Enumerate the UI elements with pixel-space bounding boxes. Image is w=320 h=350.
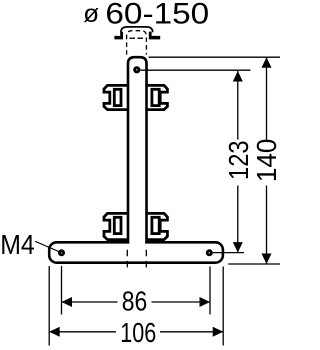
extension line below right hole (86) bbox=[209, 267, 211, 315]
leader line from top hole to 123 dimension bbox=[140, 69, 250, 71]
leader line from right hole to 123 dimension bbox=[213, 252, 244, 254]
extension line from base bar bottom to 140 dimension bbox=[228, 263, 280, 265]
base bar (horizontal foot, rounded rect) bbox=[49, 242, 223, 262]
arrow left 106 bbox=[49, 327, 60, 337]
dashed clamp jaw profile (hidden rounded top) bbox=[127, 31, 147, 55]
svg-text:60-150: 60-150 bbox=[105, 0, 209, 31]
clamp symbol left hook arrow bbox=[114, 32, 123, 40]
arrow down 123 bbox=[233, 242, 243, 253]
svg-text:140: 140 bbox=[251, 139, 280, 183]
upper right clip outline bbox=[146, 85, 168, 109]
svg-text:106: 106 bbox=[120, 317, 156, 348]
arrow up 140 bbox=[262, 57, 272, 67]
clamp symbol right hook arrow bbox=[149, 32, 160, 40]
dimension line 123 (vertical) bbox=[237, 71, 239, 140]
lower right clip outline bbox=[146, 213, 168, 239]
extension line from bar top to 140 dimension bbox=[149, 56, 280, 58]
svg-text:M4: M4 bbox=[0, 229, 35, 260]
dimension line 86 (horizontal) bbox=[62, 301, 118, 303]
dimension line 140 (vertical) bbox=[266, 57, 268, 139]
arrow left 86 bbox=[62, 297, 73, 307]
vertical bar (mast profile, rounded top) bbox=[128, 57, 147, 242]
upper right clip slot bbox=[152, 89, 159, 105]
dimension line 106 (horizontal) bbox=[49, 331, 116, 333]
upper left clip slot bbox=[114, 89, 121, 105]
leader line from M4 label to left hole bbox=[35, 241, 62, 253]
top mounting hole in vertical bar bbox=[133, 66, 140, 73]
svg-text:ø: ø bbox=[83, 0, 99, 28]
lower left clip outline bbox=[104, 213, 129, 239]
svg-text:123: 123 bbox=[223, 140, 254, 180]
right M4 screw hole in base bar bbox=[206, 249, 213, 256]
lower right clip slot bbox=[152, 217, 159, 233]
hidden dashed edge of bar inside base bar right bbox=[145, 250, 147, 268]
clamp symbol outer arc (band) bbox=[121, 27, 153, 33]
arrow up 123 bbox=[233, 71, 243, 82]
left M4 screw hole in base bar bbox=[58, 249, 65, 256]
arrow right 86 bbox=[200, 297, 211, 307]
extension line below bar left end (106) bbox=[48, 266, 50, 346]
lower left clip slot bbox=[114, 217, 121, 233]
arrow down 140 bbox=[262, 254, 272, 265]
dashed pole line inside clamp bbox=[130, 37, 145, 39]
extension line below bar right end (106) bbox=[222, 267, 224, 346]
svg-text:86: 86 bbox=[122, 285, 148, 316]
arrow right 106 bbox=[213, 327, 224, 337]
hidden dashed edge of bar inside base bar left bbox=[126, 250, 128, 268]
upper left clip outline bbox=[104, 85, 129, 109]
gap in base bar top edge where vertical bar crosses bbox=[129, 240, 145, 245]
extension line below left hole (86) bbox=[61, 266, 63, 315]
